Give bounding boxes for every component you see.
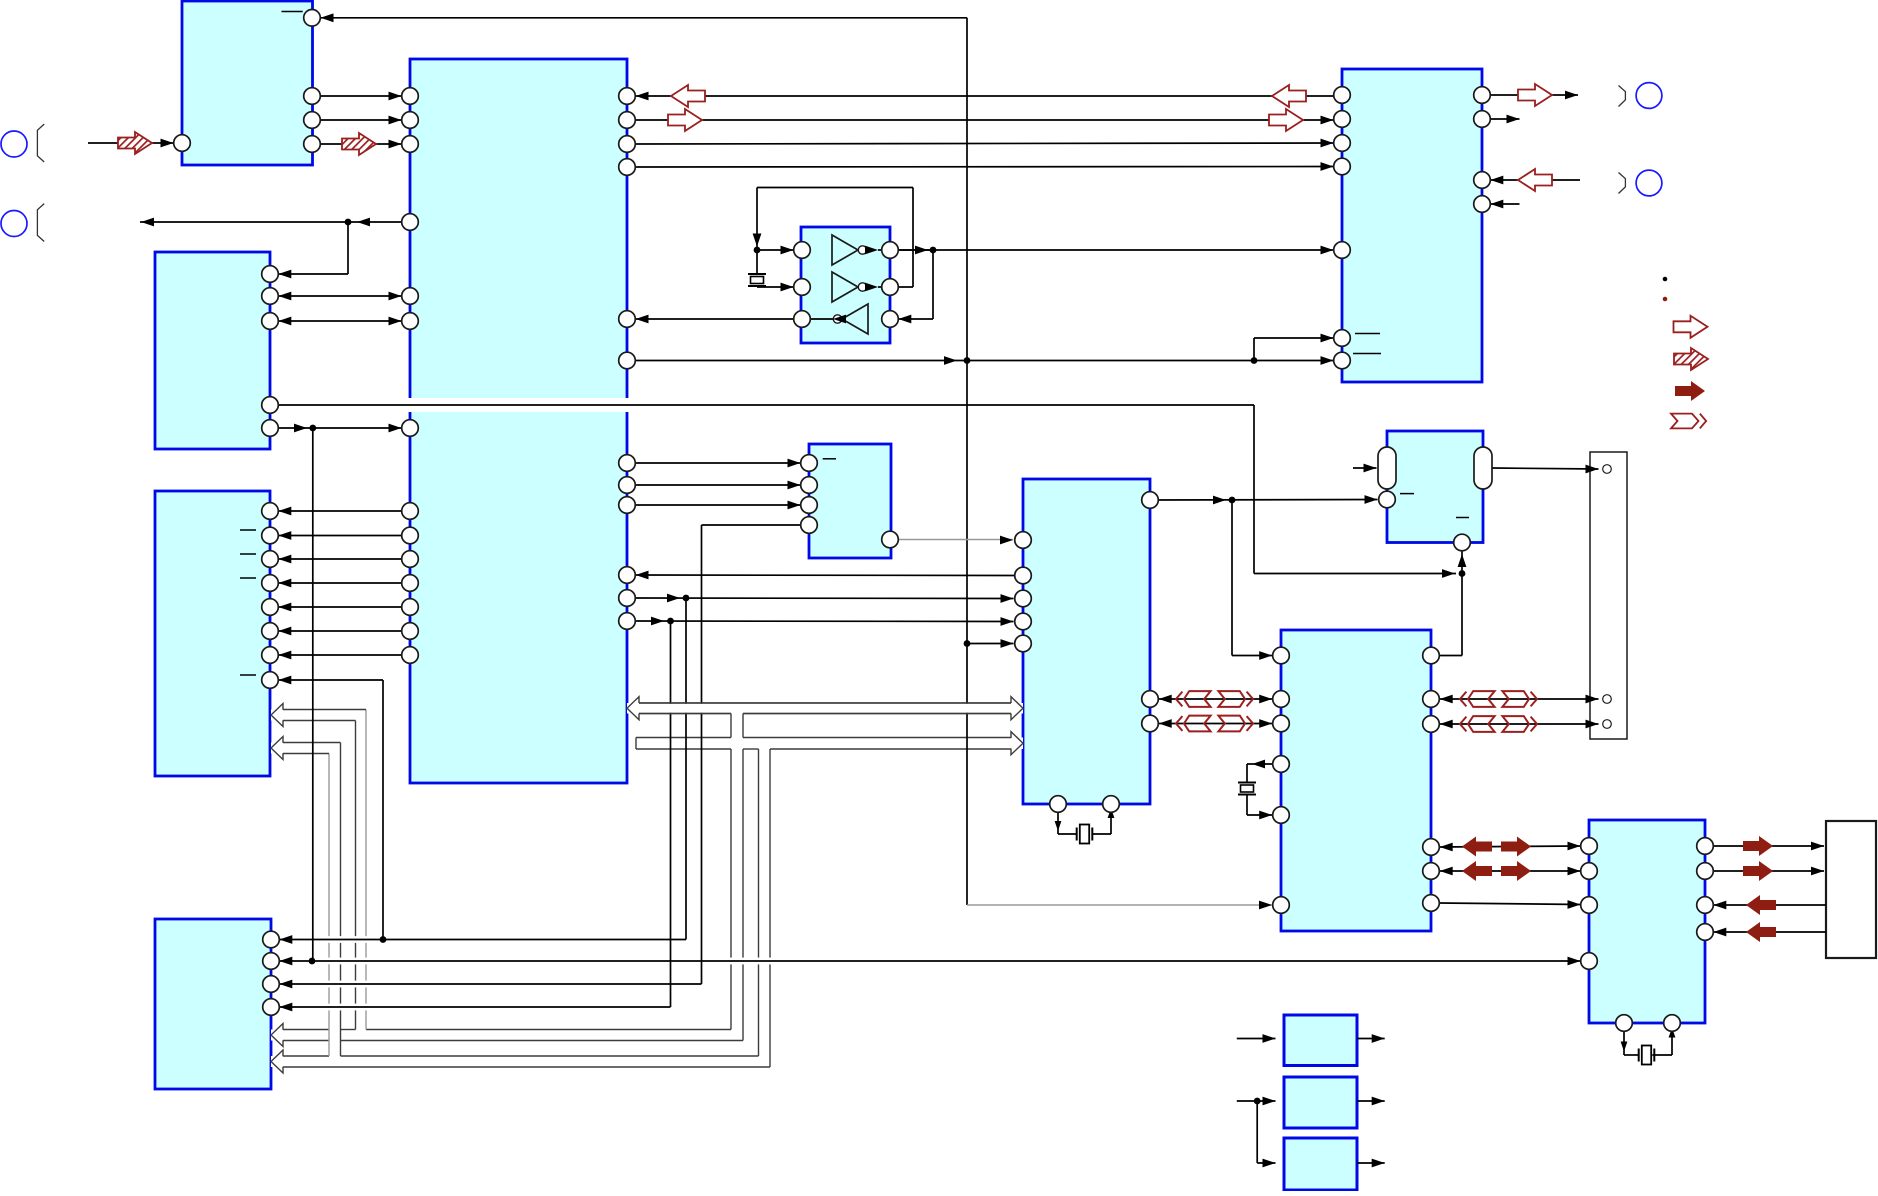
wire G3 vertical x670.5 to U5 pin4 <box>670 621 672 1007</box>
wire into U10 y204 short <box>1490 203 1519 205</box>
pin circles U1 pins <box>304 9 321 26</box>
wire U2-U7 row y505 <box>636 504 801 506</box>
wire output U13 <box>1357 1038 1385 1040</box>
wire U1-U2 row2 <box>312 119 402 121</box>
wire vertical x312 from y428 junction to KBUS <box>312 428 314 961</box>
bus1 channel interior re-cover <box>640 704 1011 713</box>
red arrow right on y120 near U10 <box>1269 109 1303 131</box>
pin circles U5 pins <box>263 931 280 948</box>
wire net G1 U8 to U2 y575 <box>636 574 1023 577</box>
wire U1-U2 row3 <box>312 143 402 145</box>
wire net HOUT U9 bottom pin down to U11 right pin y655 <box>1461 543 1463 656</box>
wire net KBUS U5 pin2 long run to U12 <box>279 960 1580 962</box>
wire CN2-U12 y932 <box>1713 931 1826 933</box>
IC block U10 servo control (top right) <box>1342 69 1482 382</box>
wire U2-U4 row y511 <box>278 510 401 512</box>
wire U1-U2 row1 <box>312 95 402 97</box>
crystal X1 <box>748 273 766 275</box>
wire net RESET gray run into U11 <box>967 904 1272 906</box>
wire osc node to U6 pin1 <box>757 249 794 251</box>
junction G3 x670.5 <box>667 618 674 625</box>
wire U10 out y119 short <box>1490 118 1519 120</box>
wire net SYNC U2 y360 to junctions <box>636 360 1255 362</box>
wire SYNC branch up to U10 pin y338 <box>1253 338 1255 361</box>
wire U10 out y95 to connector P3 <box>1490 94 1578 96</box>
wire U2-U4 row y559 <box>278 558 401 560</box>
wire U12 xtal left leg <box>1623 1023 1625 1055</box>
IC block U9 register (small, upper right) <box>1387 431 1483 543</box>
IC block U14 regulator 2 <box>1284 1077 1357 1128</box>
wire G2 vertical x686 to U5 pin1 <box>685 598 687 940</box>
IC block U3 memory (left) <box>155 252 270 449</box>
red arrow left on U10 y180 <box>1518 169 1552 191</box>
wire input to U13 <box>1237 1038 1276 1040</box>
overbar marks U4 <box>240 529 256 531</box>
solid red arrow pair y871 left <box>1462 861 1492 881</box>
crystal X4 <box>1638 1049 1640 1062</box>
junction RESET x967 y643 <box>964 640 971 647</box>
wire U2-U4 row y583 <box>278 582 401 584</box>
pin circles U12 pins <box>1581 838 1598 855</box>
wire serial U8-U11 y699 <box>1159 698 1273 700</box>
junction SYNC x1254 <box>1251 357 1258 364</box>
IC block U8 decoder (center) <box>1023 479 1150 804</box>
wire net GOUT U8 top to U9 <box>1150 499 1378 502</box>
wire branch down to U15 <box>1256 1101 1258 1163</box>
red chevron pair CN1 y699 <box>1460 692 1466 707</box>
wire U11 xtal lower <box>1246 795 1248 815</box>
overbar marks U9 <box>1400 493 1414 495</box>
IC block U12 audio DAC (bottom right) <box>1589 820 1705 1023</box>
IC block U6 oscillator inverters <box>801 227 890 343</box>
pin circles U10 right pins <box>1474 87 1491 104</box>
crystal X3 <box>1076 828 1078 841</box>
wire U11-U12 y904 <box>1440 903 1581 905</box>
wire GOUT branch down to U11 pin y655 <box>1231 500 1233 656</box>
wire U11-U12 y871 <box>1440 870 1581 872</box>
wire net FDATA U7 out gray to U8 <box>898 539 1013 541</box>
capsule pin U9 left <box>1378 447 1396 489</box>
overbar mark U1 <box>282 11 303 13</box>
connector P1 bracket <box>37 124 44 162</box>
legend open arrow <box>1674 316 1708 338</box>
wire U6 pin1 out to junction <box>890 249 933 251</box>
wire net CLKOUT oscillator to U10 <box>898 249 1333 251</box>
bus line break masks at wire crossings <box>327 936 330 943</box>
junction CLKOUT x933 <box>930 247 937 254</box>
legend red dot <box>1663 297 1668 302</box>
inverter U6a <box>832 235 858 265</box>
wire CN2-U12 y905 <box>1713 904 1826 906</box>
connector CN1 board-edge strip <box>1590 452 1627 739</box>
wire net STATUS U2 left y222 to off-page arrow <box>140 221 402 223</box>
junction GOUT x1232 <box>1229 497 1236 504</box>
pin circles U2 right pins <box>619 88 636 105</box>
solid red arrow right y871 <box>1743 861 1773 881</box>
wire serial U8-U11 y723 <box>1159 723 1273 725</box>
bus channels white fill <box>627 703 1023 714</box>
pin circles U9 pins <box>1379 491 1396 508</box>
junction G2-E8 x383 <box>380 936 387 943</box>
wire U2-U10 row y120 <box>636 119 1334 121</box>
wire CLK feedback down to inverter U6 input <box>932 250 934 319</box>
pin circles U6 pins <box>794 242 811 259</box>
red arrow left on y96 near U10 <box>1272 85 1306 107</box>
IC block U1 system control (top left) <box>182 1 313 165</box>
wire into U10 y180 from connector P4 <box>1490 179 1580 181</box>
IC block U5 interface (bottom left) <box>155 919 271 1089</box>
bus channel outlines and hollow arrowheads <box>639 702 1011 704</box>
capsule pin U9 right <box>1474 447 1492 489</box>
solid red arrow pair y871 right <box>1501 861 1531 881</box>
inverter U6c <box>842 304 868 334</box>
junction osc node x757 y250 <box>754 247 761 254</box>
wire U2-U4 row y631 <box>278 630 401 632</box>
hatched arrow on U1-U2 row3 <box>342 133 376 155</box>
wire U12-CN2 y871 <box>1713 870 1824 872</box>
wire net MEMDATA white casing <box>278 398 1254 412</box>
IC block U13 regulator 1 <box>1284 1015 1357 1066</box>
wire net RESET top run from U1 pin to far right corner <box>320 17 967 19</box>
pin circles U4 pins <box>262 503 279 520</box>
wire net E8 U4 pin8 to vertical x383 <box>278 679 383 681</box>
wire U9 right capsule to CN1 <box>1492 468 1599 469</box>
solid red arrow left y932 <box>1746 922 1776 942</box>
wire output U15 <box>1357 1162 1385 1164</box>
wire U2-U4 row y535.5 <box>278 535 401 537</box>
wire output U14 <box>1357 1100 1385 1102</box>
wire U2-U4 row y655 <box>278 654 401 656</box>
connector P3 bracket <box>1619 86 1626 107</box>
wire serial U11-CN1 y699 <box>1440 698 1599 700</box>
solid red arrow pair y847 left <box>1462 837 1492 857</box>
wire net FCLK U7 pin4 to vertical x701.5 down to U5 pin3 <box>702 524 801 526</box>
wire net G2 U2 y598 to U8 and down to U5 pin1 <box>636 597 1014 600</box>
red chevron pair CN1 y724 <box>1460 717 1466 732</box>
connector P2 circle <box>1 211 27 237</box>
legend black dot <box>1663 277 1668 282</box>
wire inverter U6a output <box>865 246 878 255</box>
junction STATUS x348 <box>345 219 352 226</box>
legend hatched arrow <box>1674 348 1708 370</box>
pin circles U3 pins <box>262 266 279 283</box>
connector P3 circle <box>1636 83 1662 109</box>
junction U14 input x1257 <box>1254 1098 1261 1105</box>
IC block U4 driver (left middle) <box>155 491 270 776</box>
connector P4 circle <box>1636 170 1662 196</box>
hatched arrow on U1 input <box>118 132 152 154</box>
wire U3-U2 bidirectional y296 <box>278 295 401 297</box>
wire net MEMDATA U3 pin to corner then down to junction J15 <box>278 404 1254 406</box>
wire net G4 from RESET line to U8 y643 <box>967 643 1014 645</box>
wire inverter U6b output <box>865 283 878 292</box>
wire input to U1 left pin <box>88 142 174 144</box>
junction G2 x686 <box>683 595 690 602</box>
wire U2-U10 row y167 <box>636 166 1334 169</box>
wire crystal to U6 pin2 <box>756 286 758 289</box>
solid red arrow right y846 <box>1743 836 1773 856</box>
red arrow right on U10 y95 <box>1518 84 1552 106</box>
junction KBUS x312 <box>309 958 316 965</box>
wire U10-U2 row y96 <box>636 95 1334 97</box>
junction RESET x967 y360 <box>964 357 971 364</box>
wire net G3 U2 y621 to U8 and down to U5 pin4 <box>636 620 1014 623</box>
pin circles U7 pins <box>801 455 818 472</box>
wire U11-U12 y847 <box>1440 846 1581 847</box>
pin circles U10 left pins <box>1334 87 1351 104</box>
legend solid arrow <box>1675 381 1705 401</box>
wire input to U14 <box>1237 1100 1276 1102</box>
connector CN2 external box <box>1826 821 1876 958</box>
IC block U15 regulator 3 <box>1284 1138 1357 1190</box>
wire U8 xtal right leg <box>1092 833 1111 835</box>
IC block U2 main processor (tall, left center) <box>410 59 627 783</box>
legend chevron arrow <box>1671 414 1699 429</box>
wire U8 xtal left leg <box>1057 804 1059 834</box>
wire U11 xtal upper <box>1247 763 1273 765</box>
connector P4 bracket <box>1619 173 1626 194</box>
wire stub into U9 left capsule <box>1353 467 1377 469</box>
connector P2 bracket <box>37 204 44 242</box>
wire U2-U10 row y144 <box>636 143 1334 144</box>
wire U3-U2 row y428 with junction <box>278 427 401 429</box>
wire inverter U6c output to U2 <box>810 318 833 320</box>
pin circles U11 left pins <box>1273 647 1290 664</box>
pin circles U11 right pins <box>1423 647 1440 664</box>
wire U12-CN2 y846 <box>1713 845 1824 847</box>
wire U2-U4 row y607 <box>278 606 401 608</box>
wire U2-U7 row y463 <box>636 462 801 464</box>
pin circles U2 left pins <box>402 88 419 105</box>
wire osc feedback loop <box>890 286 913 288</box>
red chevron pair y699 <box>1176 692 1182 707</box>
solid red arrow pair y847 right <box>1501 837 1531 857</box>
connector P1 circle <box>1 131 27 157</box>
bus1 outline redraw <box>639 702 1011 704</box>
overbar mark U7 <box>823 458 836 460</box>
wire serial U11-CN1 y724 <box>1440 723 1599 725</box>
wire SYNC to U10 pin y360 <box>1254 360 1334 362</box>
wire STATUS branch down into U3 <box>347 222 349 274</box>
solid red arrow left y905 <box>1746 895 1776 915</box>
junction y428 x312.8 <box>309 425 316 432</box>
red arrow left on y96 near U2 <box>671 85 705 107</box>
pin circles CN1 <box>1603 465 1612 474</box>
red arrow right on y120 near U2 <box>668 109 702 131</box>
IC block U11 DSP (bottom center right) <box>1281 630 1431 931</box>
crystal X2 <box>1238 782 1256 784</box>
wire U2-U7 row y485 <box>636 484 801 486</box>
wire U12 xtal right leg <box>1652 1054 1672 1056</box>
IC block U7 buffer (small, center) <box>809 444 891 558</box>
inverter U6b <box>832 272 858 302</box>
wire U3-U2 bidirectional y321 <box>278 320 401 322</box>
pin circles U8 pins <box>1142 492 1159 509</box>
red chevron pair y723 <box>1176 716 1182 731</box>
overbar marks U10 <box>1355 333 1380 335</box>
